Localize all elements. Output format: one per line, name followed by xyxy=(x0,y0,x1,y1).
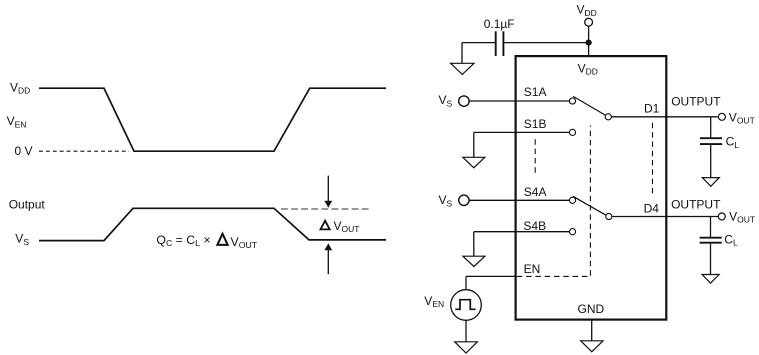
node junction dot xyxy=(586,40,592,46)
label S1A pin xyxy=(524,85,547,99)
capacitor CL 1 xyxy=(700,117,722,178)
wire GND xyxy=(591,320,593,341)
wire VEN to ground xyxy=(465,320,467,342)
switch SW4 throw xyxy=(606,213,612,219)
wire S1A xyxy=(469,100,569,102)
wire D1 to VOUT xyxy=(611,116,718,118)
label VOUT 4 xyxy=(729,209,755,224)
label VEN (waveform) xyxy=(7,114,27,129)
label CL 4 xyxy=(724,232,738,247)
wire S1B xyxy=(474,131,570,133)
terminal VOUT 1 xyxy=(718,113,725,120)
svg-text:S1B: S1B xyxy=(524,117,547,131)
label S1B pin xyxy=(524,117,547,131)
svg-text:GND: GND xyxy=(578,302,605,316)
switch SW1 arm xyxy=(573,96,606,115)
ground (VEN) xyxy=(455,342,478,353)
wire VDD vertical xyxy=(588,26,590,56)
dashed continuation S1-S4 xyxy=(534,139,536,175)
label GND pin xyxy=(578,302,605,316)
source VEN pulse generator xyxy=(451,290,482,321)
svg-text:S4A: S4A xyxy=(524,185,547,199)
label VDD supply xyxy=(577,3,597,18)
terminal S4B open xyxy=(569,229,575,235)
capacitor CL 4 xyxy=(700,217,722,275)
label OUTPUT 1 xyxy=(671,94,721,108)
wire VEN to EN xyxy=(465,276,467,290)
ground (GND pin) xyxy=(581,341,603,352)
svg-text:D1: D1 xyxy=(644,101,660,115)
gray dashed VOUT reference line xyxy=(281,208,369,210)
waveform Output trace xyxy=(39,208,386,240)
svg-text:S4B: S4B xyxy=(523,219,546,233)
wire S4B xyxy=(474,231,570,233)
switch SW1 throw xyxy=(605,114,611,120)
switch SW4 pole xyxy=(569,197,575,203)
wire D4 to VOUT xyxy=(612,216,718,218)
arrow up to output level xyxy=(324,243,332,274)
ground (CL 1) xyxy=(702,178,719,187)
svg-text:Output: Output xyxy=(9,198,46,212)
ground (S4B) xyxy=(463,232,485,267)
label 0.1uF xyxy=(484,17,515,31)
label D4 pin xyxy=(644,201,660,215)
wire decoupling horizontal xyxy=(462,42,495,44)
label VDD (waveform) xyxy=(10,80,30,95)
terminal VS 4 xyxy=(459,195,469,205)
label Output xyxy=(9,198,46,212)
ground (CL 4) xyxy=(702,275,719,284)
svg-text:EN: EN xyxy=(524,262,541,276)
label VS source 1 xyxy=(439,93,453,108)
terminal VDD xyxy=(585,18,593,26)
label VDD pin xyxy=(578,61,598,76)
terminal S1B open xyxy=(569,129,575,135)
ground (decoupling cap) xyxy=(451,43,474,75)
switch SW4 arm xyxy=(573,196,606,215)
svg-text:0 V: 0 V xyxy=(15,144,33,158)
terminal VS 1 xyxy=(459,96,469,106)
dashed 0V reference line xyxy=(39,150,129,152)
label S4A pin xyxy=(524,185,547,199)
label 0 V xyxy=(15,144,33,158)
svg-text:QC = CL ×: QC = CL × xyxy=(156,233,210,248)
svg-text:OUTPUT: OUTPUT xyxy=(671,94,721,108)
dashed continuation D1-D4 xyxy=(652,123,654,194)
arrow down to dashed line xyxy=(324,176,332,208)
terminal VOUT 4 xyxy=(718,213,725,220)
wire S4A xyxy=(469,199,569,201)
svg-text:S1A: S1A xyxy=(524,85,547,99)
label VS (waveform) xyxy=(15,232,29,247)
switch SW1 pole xyxy=(569,98,575,104)
label delta VOUT (annotation) xyxy=(321,219,360,234)
dashed EN control line xyxy=(517,126,591,277)
label CL 1 xyxy=(726,135,740,150)
label VOUT 1 xyxy=(729,110,755,125)
svg-text:OUTPUT: OUTPUT xyxy=(671,198,721,212)
label VEN source xyxy=(424,294,444,309)
label D1 pin xyxy=(644,101,660,115)
wire EN xyxy=(466,275,516,277)
label EN pin xyxy=(524,262,541,276)
svg-text:0.1µF: 0.1µF xyxy=(484,17,515,31)
equation QC = CL x dVOUT xyxy=(156,233,257,250)
capacitor 0.1uF xyxy=(496,31,504,56)
label S4B pin xyxy=(523,219,546,233)
ground (S1B) xyxy=(463,132,485,167)
svg-text:D4: D4 xyxy=(644,201,660,215)
waveform VEN trace xyxy=(39,88,386,151)
label VS source 4 xyxy=(439,193,453,208)
label OUTPUT 4 xyxy=(671,198,721,212)
IC box U1 xyxy=(516,56,667,320)
